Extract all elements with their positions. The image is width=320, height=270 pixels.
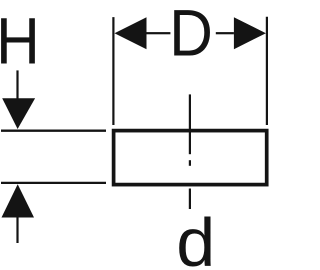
extension line: top surface (H)	[1, 130, 106, 132]
H dimension arrow down	[2, 70, 35, 129]
extension line: bottom surface (H)	[1, 182, 106, 184]
D dimension arrow left	[115, 17, 171, 49]
extension line: left edge (D)	[112, 17, 114, 125]
part outline: disc side view rectangle	[114, 131, 267, 185]
extension line: right edge (D)	[266, 17, 268, 125]
svg-text:D: D	[169, 0, 213, 70]
D dimension arrow right	[216, 17, 266, 49]
H dimension arrow up	[2, 184, 35, 243]
svg-text:d: d	[176, 204, 215, 270]
svg-text:H: H	[0, 4, 40, 78]
centerline (dash-dot axis through part, node d axis)	[189, 94, 191, 209]
